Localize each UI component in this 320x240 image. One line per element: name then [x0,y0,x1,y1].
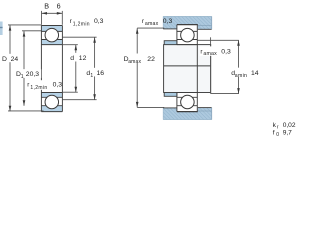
d arrow down [75,87,78,93]
D1 arrow down [23,100,26,106]
right ball pocket top [180,28,194,42]
d arrow up [75,45,78,51]
D1 extension top [22,30,41,32]
Damax arrow up [136,28,139,34]
svg-text:0,3: 0,3 [94,18,104,25]
svg-text:16: 16 [97,70,105,77]
svg-text:0,3: 0,3 [53,82,63,89]
d extension bottom [62,91,78,93]
D extension top [8,24,41,26]
D dimension line [9,25,11,54]
bore line top [41,44,62,46]
ball top [45,28,59,42]
housing bottom (stepped) [163,108,212,120]
D arrow up [9,25,12,31]
inner ring top fill [41,40,62,45]
right ball pocket bottom [180,95,194,109]
damin arrow down [237,88,240,94]
inner ring shoulder top [41,39,62,41]
svg-text:0: 0 [276,132,279,138]
d dimension line [75,45,77,53]
svg-text:1: 1 [90,73,93,79]
svg-text:r: r [277,124,279,130]
damin dimension line [238,40,240,68]
da extension bottom [211,93,239,95]
d1 arrow down [93,94,96,100]
svg-text:f: f [273,129,275,136]
right side face [61,26,63,112]
outer surface top [41,25,62,27]
svg-text:6: 6 [57,2,61,11]
shaft mid line [164,65,211,67]
svg-text:amax: amax [145,21,159,27]
shaft right face projection [210,37,212,46]
svg-text:amax: amax [203,51,217,57]
svg-text:20,3: 20,3 [26,71,39,78]
Damax dimension line [136,28,138,53]
bore line bottom [41,92,62,94]
outer surface bottom [41,111,62,113]
svg-text:d: d [70,55,74,62]
d extension top [62,44,78,46]
da extension top [197,39,239,41]
d1 arrow up [93,37,96,43]
B dimension line [42,12,63,14]
D1 dimension line [23,31,25,69]
outer ring top fill [41,26,62,32]
svg-text:24: 24 [11,56,19,63]
Damax extension bottom [137,106,164,108]
Damax arrow down [136,102,139,108]
d1 dimension line [94,37,96,68]
shaft shoulder bottom-left [164,93,177,97]
svg-text:14: 14 [251,70,259,77]
shaft body [164,45,211,93]
svg-text:D: D [2,56,7,63]
B extension line right [61,11,63,25]
right bearing outline bottom section [177,92,197,94]
svg-text:0,3: 0,3 [221,48,231,55]
Damax extension top [137,27,164,29]
shaft interior vertical (bearing face projection) [196,45,198,93]
svg-text:amax: amax [128,59,141,65]
ball pocket bottom [45,95,59,109]
D extension bottom [8,110,44,112]
svg-text:amin: amin [235,73,247,79]
left-edge cropped fragment [0,22,3,36]
left side face [40,26,42,112]
svg-text:1,2min: 1,2min [30,85,47,91]
svg-text:9,7: 9,7 [283,129,292,136]
svg-text:1,2min: 1,2min [73,21,90,27]
B extension line left [41,11,43,25]
B arrow right [57,12,63,15]
inner ring shoulder bottom [41,96,62,98]
svg-text:1: 1 [21,74,24,80]
right ball top [181,28,195,42]
svg-text:0,02: 0,02 [283,122,296,129]
svg-text:22: 22 [147,56,155,63]
d1 extension top [62,36,96,38]
svg-text:B: B [44,2,49,11]
inner ring bottom fill [41,93,62,98]
damin arrow up [237,40,240,46]
outer ring bottom fill [41,106,62,112]
svg-text:0,3: 0,3 [163,18,173,25]
shaft shoulder top-left [164,41,177,45]
ball bottom [45,95,59,109]
right ball bottom [181,95,195,109]
housing top (stepped: left shoulder / seat / right shoulder) [163,16,212,29]
D arrow down [9,106,12,112]
B arrow left [42,12,48,15]
outer ring inner surface top [41,30,62,32]
D1 arrow up [23,31,26,36]
ball pocket top [45,28,59,42]
svg-text:12: 12 [79,55,87,62]
outer ring inner surface bottom [41,105,62,107]
d1 extension bottom [62,99,96,101]
right bearing outline top section [177,30,197,32]
